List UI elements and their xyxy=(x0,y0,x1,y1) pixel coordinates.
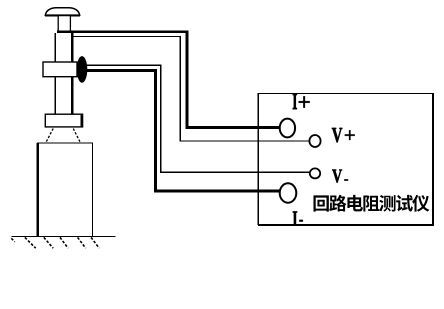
ground hatch 5 xyxy=(91,237,99,248)
wire V+ : thin lead from bushing top terminal to V+ xyxy=(72,37,310,141)
cone left edge (dashed) xyxy=(46,129,53,143)
ground hatch 3 xyxy=(60,237,68,248)
ground hatch 4 xyxy=(78,237,86,248)
label I- : glyph I xyxy=(293,211,297,225)
ground line xyxy=(11,235,115,237)
breaker bushing cap (dome) xyxy=(45,8,79,15)
terminal V- xyxy=(310,168,320,178)
label V- : glyph - xyxy=(344,179,348,180)
ground hatch 2 xyxy=(44,237,53,248)
ground hatch 1 xyxy=(25,237,36,248)
wire V- : thin lead from crossbar terminal to V- xyxy=(86,65,311,172)
label V+ : glyph V xyxy=(332,128,342,142)
label I- : glyph - xyxy=(299,220,303,222)
bushing stem xyxy=(58,16,70,33)
terminal I- xyxy=(280,183,297,202)
label I+ : glyph I xyxy=(293,94,297,109)
wire I- : thick lead from crossbar terminal to I- xyxy=(85,70,281,190)
label V- : glyph V xyxy=(332,170,342,183)
cone right edge (dashed) xyxy=(73,129,80,143)
bushing flange xyxy=(45,114,82,127)
terminal V+ xyxy=(309,135,320,147)
crossbar (test terminal bar) xyxy=(43,62,77,77)
label I+ : glyph + xyxy=(299,96,310,107)
clamp blob (black ellipse terminal) xyxy=(77,56,88,83)
label 回路电阻测试仪 (loop resistance tester) xyxy=(313,195,429,212)
ground hatch 0 (partial, left edge) xyxy=(11,238,15,242)
breaker tank body xyxy=(38,143,93,236)
bushing column xyxy=(55,33,72,114)
terminal I+ xyxy=(280,119,295,138)
label V+ : glyph + xyxy=(345,130,355,140)
wire I+ : thick lead from bushing top terminal to I+ xyxy=(57,32,281,128)
tester box 回路电阻测试仪 xyxy=(258,93,433,225)
